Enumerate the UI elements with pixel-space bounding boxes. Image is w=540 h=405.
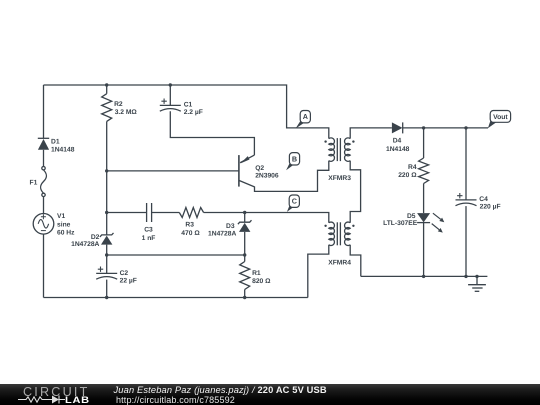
ground xyxy=(476,276,478,284)
logo wire with resistor and diode xyxy=(0,384,110,405)
svg-text:2.2 µF: 2.2 µF xyxy=(184,109,203,116)
net flag A xyxy=(296,120,305,128)
svg-text:R2: R2 xyxy=(114,101,123,108)
svg-text:sine: sine xyxy=(57,222,71,229)
svg-text:1N4148: 1N4148 xyxy=(386,146,410,153)
XFMR4 primary bottom to bottom rail xyxy=(308,245,329,298)
svg-text:60 Hz: 60 Hz xyxy=(57,229,75,236)
voltage source V1 xyxy=(33,214,54,235)
C3 rail xyxy=(107,212,147,214)
fuse F1 xyxy=(42,167,45,170)
svg-text:1N4148: 1N4148 xyxy=(51,147,75,154)
resistor R4 xyxy=(423,128,425,158)
wire C3 to R3 xyxy=(152,212,180,214)
footer bar xyxy=(0,384,540,405)
resistor R2 xyxy=(106,85,108,94)
svg-text:Vout: Vout xyxy=(493,114,508,121)
svg-text:220 Ω: 220 Ω xyxy=(398,172,417,179)
wire XFMR3 secondary top to D4 xyxy=(350,128,392,139)
svg-text:D4: D4 xyxy=(393,138,402,145)
net flag C xyxy=(287,205,294,212)
XFMR3 secondary bottom to XFMR4 secondary top xyxy=(350,161,360,223)
svg-text:V1: V1 xyxy=(57,213,65,220)
svg-text:1N4728A: 1N4728A xyxy=(71,241,99,248)
LED D5 xyxy=(417,213,430,222)
XFMR4 secondary bottom to right rail xyxy=(350,245,361,277)
zener diode D3 xyxy=(244,213,246,223)
capacitor C3 xyxy=(146,203,148,222)
net flag B xyxy=(286,162,294,170)
wire D4 to Vout xyxy=(403,127,488,129)
capacitor C2 plates xyxy=(96,272,117,274)
wire D1 to F1 xyxy=(43,150,45,167)
svg-text:F1: F1 xyxy=(29,179,37,186)
transistor Q2 xyxy=(238,155,240,187)
wire F1 to V1 xyxy=(43,197,45,214)
svg-text:D3: D3 xyxy=(226,223,235,230)
svg-text:C: C xyxy=(292,197,297,206)
resistor R2 zigzag xyxy=(102,94,112,122)
right bottom rail xyxy=(361,275,488,277)
svg-text:D5: D5 xyxy=(407,213,416,220)
wire R2 down to D2 xyxy=(106,121,108,234)
svg-text:XFMR3: XFMR3 xyxy=(328,175,351,182)
capacitor C2 xyxy=(106,255,108,273)
svg-text:Q2: Q2 xyxy=(255,165,264,172)
net flag Vout xyxy=(488,120,496,129)
svg-text:220 µF: 220 µF xyxy=(480,204,501,211)
svg-text:22 µF: 22 µF xyxy=(120,277,137,284)
capacitor C1 xyxy=(169,83,172,86)
resistor R1 zigzag xyxy=(240,262,250,290)
wire Q2 base xyxy=(107,170,239,172)
resistor R1 xyxy=(244,255,246,262)
svg-text:820 Ω: 820 Ω xyxy=(252,278,271,285)
zener diode D2 xyxy=(100,233,114,237)
diode D4 xyxy=(392,122,403,133)
capacitor C4 plates xyxy=(456,199,477,201)
svg-text:B: B xyxy=(292,154,297,163)
svg-text:C1: C1 xyxy=(184,101,193,108)
top rail node xyxy=(44,85,329,139)
svg-text:R4: R4 xyxy=(408,164,417,171)
bottom rail xyxy=(44,297,308,299)
resistor R4 zigzag xyxy=(419,158,429,184)
svg-text:C4: C4 xyxy=(479,196,488,203)
svg-text:C2: C2 xyxy=(120,270,129,277)
svg-text:1 nF: 1 nF xyxy=(142,235,156,242)
svg-text:A: A xyxy=(303,112,308,121)
svg-text:1N4728A: 1N4728A xyxy=(208,231,236,238)
diode D1 xyxy=(38,137,49,139)
svg-text:R3: R3 xyxy=(185,221,194,228)
svg-text:D1: D1 xyxy=(51,138,60,145)
svg-text:3.2 MΩ: 3.2 MΩ xyxy=(115,109,138,116)
svg-text:2N3906: 2N3906 xyxy=(255,173,279,180)
svg-text:D2: D2 xyxy=(91,234,100,241)
mid rail D2-D3 xyxy=(107,254,245,256)
transformer XFMR4 xyxy=(329,222,335,245)
capacitor C1 plates xyxy=(160,104,181,106)
wire V1 to bottom rail xyxy=(43,234,45,297)
resistor R3 zigzag xyxy=(179,208,203,218)
capacitor C4 xyxy=(465,128,467,200)
transformer XFMR3 xyxy=(329,138,335,162)
svg-text:LTL-307EE: LTL-307EE xyxy=(383,220,418,227)
wire R3 to XFMR4 xyxy=(204,213,329,223)
svg-text:XFMR4: XFMR4 xyxy=(328,259,351,266)
svg-text:470 Ω: 470 Ω xyxy=(181,230,200,237)
svg-text:R1: R1 xyxy=(252,270,261,277)
wire left rail upper xyxy=(43,85,45,138)
svg-text:C3: C3 xyxy=(144,226,153,233)
wire C1 to Q2 emitter xyxy=(170,111,254,155)
